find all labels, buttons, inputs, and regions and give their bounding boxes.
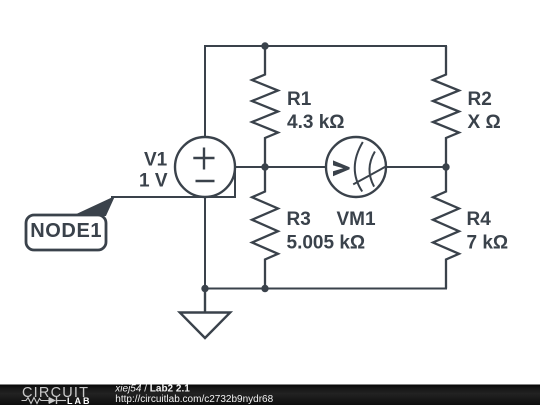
junction dot bottom R3 <box>261 285 268 292</box>
svg-text:X Ω: X Ω <box>468 112 501 133</box>
junction dot ground node <box>201 285 208 292</box>
resistor R2 <box>433 46 459 167</box>
junction dot middle left (node A) <box>261 163 268 170</box>
svg-text:VM1: VM1 <box>337 209 377 230</box>
wire middle rail left <box>235 166 326 168</box>
wire bottom rail <box>205 288 446 290</box>
svg-text:R3: R3 <box>287 209 311 230</box>
wire top rail <box>205 45 446 47</box>
node flag NODE1 pointer <box>74 197 114 216</box>
wire middle rail right <box>386 166 446 168</box>
resistor R3 <box>252 167 278 289</box>
wire NODE1 net <box>112 167 235 197</box>
svg-text:V1: V1 <box>144 150 168 171</box>
ground <box>180 289 230 339</box>
resistor R1 <box>252 46 278 167</box>
svg-text:R1: R1 <box>287 89 312 110</box>
svg-text:1 V: 1 V <box>139 171 168 192</box>
svg-text:NODE1: NODE1 <box>30 220 102 242</box>
svg-text:LAB: LAB <box>67 396 92 405</box>
svg-text:7 kΩ: 7 kΩ <box>467 233 509 254</box>
resistor R4 <box>433 167 459 289</box>
svg-text:R2: R2 <box>468 89 492 110</box>
CircuitLab logo resistor-diode glyph <box>22 398 50 404</box>
svg-text:R4: R4 <box>467 209 492 230</box>
wire V1 top lead <box>204 46 206 137</box>
wire V1 bottom lead <box>204 197 206 289</box>
svg-text:http://circuitlab.com/c2732b9n: http://circuitlab.com/c2732b9nydr68 <box>115 394 273 405</box>
svg-text:xiej54 / Lab2 2.1: xiej54 / Lab2 2.1 <box>114 384 190 395</box>
svg-text:4.3 kΩ: 4.3 kΩ <box>287 112 345 133</box>
svg-text:5.005 kΩ: 5.005 kΩ <box>287 233 366 254</box>
junction dot top (node at R1 top) <box>261 42 268 49</box>
footer bar <box>0 385 540 405</box>
voltage source V1 <box>175 137 235 197</box>
voltmeter VM1 <box>326 137 386 197</box>
junction dot middle right (node B) <box>442 163 449 170</box>
node flag NODE1 box <box>26 215 106 250</box>
